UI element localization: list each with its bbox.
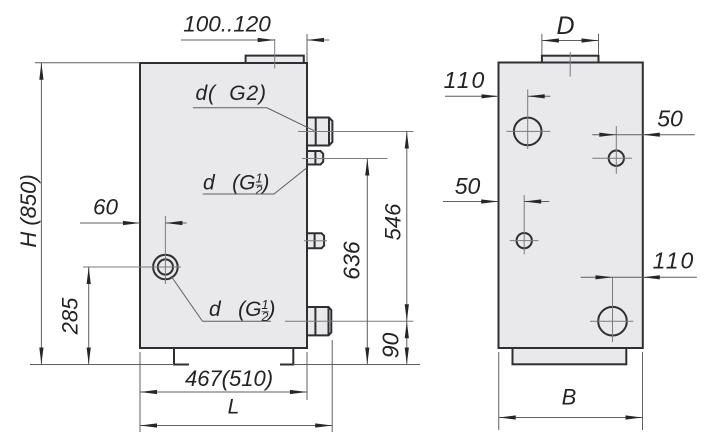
centerline fitting G2 [298, 131, 414, 133]
hole bottom-right big [598, 307, 627, 336]
label d(G1/2) lower with leader [171, 276, 275, 324]
crosshair hole top-left [506, 89, 550, 149]
dim 50 left [443, 173, 549, 204]
dim 285 [58, 267, 91, 365]
dim 90 [293, 321, 420, 364]
crosshair hole top-right [592, 126, 632, 174]
svg-text:60: 60 [93, 195, 119, 220]
dim 100..120 [181, 12, 329, 63]
dim L [140, 340, 332, 432]
svg-text:110: 110 [444, 67, 487, 93]
svg-text:d (G12): d (G12) [209, 298, 275, 324]
dim 636 [339, 159, 370, 365]
filler neck front view [246, 56, 304, 63]
centerline neck vertical [274, 39, 276, 69]
svg-text:90: 90 [378, 333, 404, 359]
centerline neck side vertical [569, 52, 571, 77]
filler neck side view [542, 56, 599, 63]
centerline fitting bottom [285, 320, 414, 322]
fitting G1/2 bottom big [307, 307, 331, 335]
svg-text:d( G2): d( G2) [196, 82, 267, 105]
centerline hole horizontal [83, 266, 181, 268]
fitting stub middle [307, 233, 324, 248]
crosshair hole mid-left [510, 195, 539, 254]
svg-text:H (850): H (850) [16, 174, 41, 247]
svg-text:467(510): 467(510) [185, 366, 273, 391]
fitting G1/2 upper small [307, 151, 323, 165]
svg-text:50: 50 [657, 106, 683, 132]
right foot bracket [280, 348, 293, 365]
fitting G2 top big [307, 118, 332, 146]
dim B [499, 352, 643, 430]
label d(G2) with leader [193, 82, 314, 131]
dim 60 [80, 195, 187, 226]
dim 110 bottom-right [581, 248, 697, 280]
tank body side view [499, 63, 643, 349]
centerline fitting small upper [302, 158, 388, 160]
hole top-left big [514, 118, 542, 146]
centerline fitting stub [304, 240, 327, 242]
svg-text:546: 546 [381, 203, 406, 240]
dim D [542, 12, 599, 55]
dim 546 [381, 132, 409, 322]
hole mid-left small [517, 233, 532, 248]
crosshair hole bottom-right [590, 277, 633, 342]
label d(G1/2) upper with leader [203, 168, 307, 198]
svg-text:D: D [556, 12, 574, 40]
dim 50 right [592, 106, 695, 137]
hole top-right small [609, 151, 624, 166]
svg-text:110: 110 [653, 248, 696, 274]
dim 110 top-left [444, 67, 551, 98]
svg-text:636: 636 [339, 241, 365, 280]
svg-text:L: L [228, 396, 240, 419]
svg-text:50: 50 [455, 173, 481, 199]
svg-text:100..120: 100..120 [183, 12, 271, 37]
drain hole front view [153, 255, 178, 280]
left foot bracket [174, 348, 189, 365]
dim 467(510) [140, 352, 307, 432]
centerline hole vertical [164, 216, 166, 284]
tank body front view [140, 63, 307, 348]
svg-text:B: B [562, 385, 577, 410]
skirt plate side view [513, 348, 627, 364]
dim H 850 [16, 63, 174, 365]
svg-text:285: 285 [58, 297, 83, 335]
